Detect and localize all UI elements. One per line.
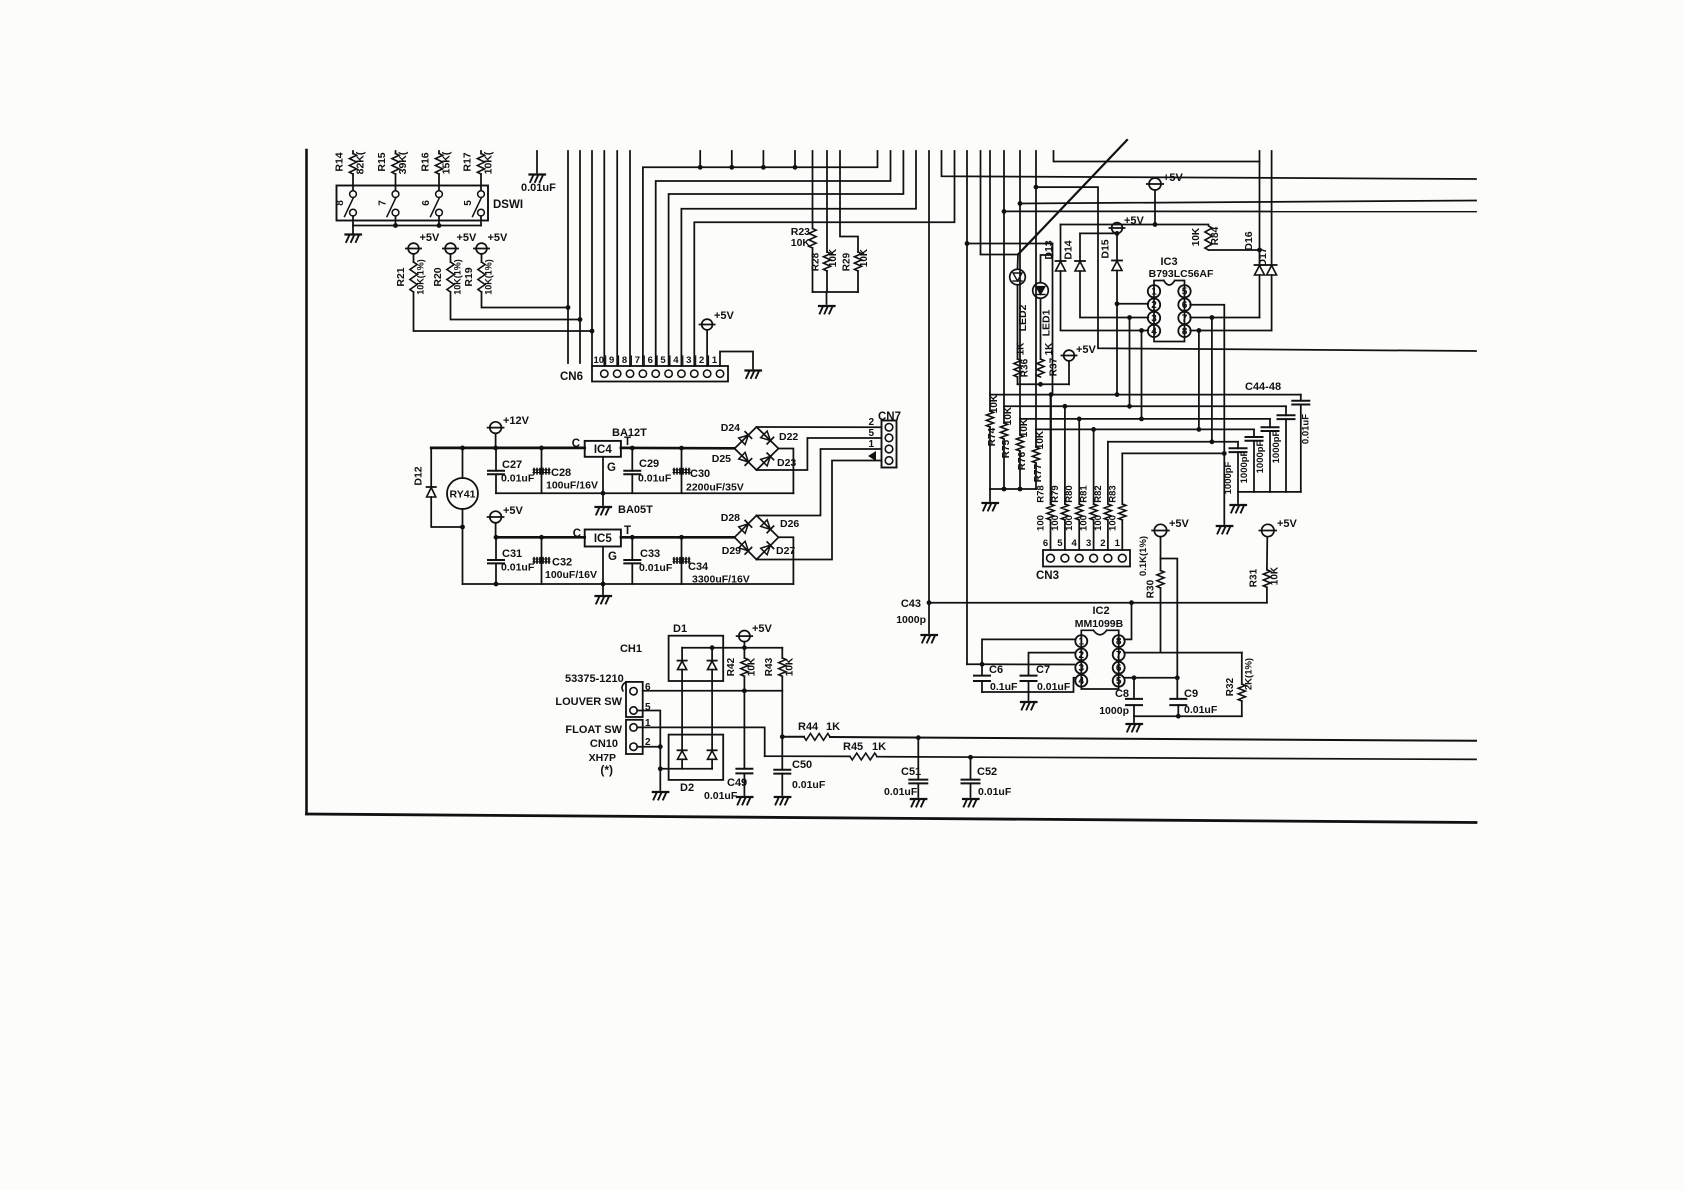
wire R30 branch to C9	[1161, 559, 1178, 699]
svg-text:10K: 10K	[1191, 227, 1202, 246]
wire top rail to D16	[1054, 151, 1260, 162]
resistor R42 10K	[743, 648, 745, 658]
diode D12	[430, 448, 432, 487]
svg-text:R77: R77	[1033, 463, 1044, 482]
wire IC5 output rail	[621, 536, 735, 539]
svg-text:C28: C28	[551, 467, 571, 479]
wire IC2 pin3 line	[982, 663, 1074, 665]
resistor R17 10K top ladder	[480, 151, 482, 154]
svg-text:C33: C33	[640, 548, 660, 560]
wire CN6 pin9	[616, 151, 618, 366]
wire CN10 pin6 line	[643, 690, 783, 692]
capacitor C28 100uF/16V	[541, 448, 543, 493]
svg-text:10K: 10K	[747, 657, 758, 676]
svg-text:B793LC56AF: B793LC56AF	[1149, 268, 1214, 280]
svg-text:100: 100	[1036, 515, 1047, 531]
svg-text:C6: C6	[989, 664, 1003, 676]
svg-text:10K(1%): 10K(1%)	[484, 259, 494, 295]
DIP switch DSWI	[337, 186, 489, 221]
capacitor C29 0.01uF	[631, 448, 633, 471]
resistor R16 15K top ladder	[438, 151, 440, 154]
capacitor C48	[1300, 395, 1302, 401]
wire loop3 R76 net	[1020, 418, 1270, 420]
wire vertical LED2 branch	[981, 151, 1019, 255]
wire D15 branch down to loop1	[1116, 304, 1118, 395]
svg-text:D26: D26	[780, 518, 799, 530]
diode bridge D28 D26 D29 D27	[735, 516, 779, 560]
svg-text:CN6: CN6	[560, 371, 583, 383]
capacitor C27 0.01uF	[495, 448, 497, 471]
resistor R79 100 series	[1064, 406, 1066, 504]
svg-text:39K(: 39K(	[397, 151, 409, 174]
LED LED2	[1017, 255, 1020, 270]
svg-text:LED2: LED2	[1017, 304, 1029, 331]
capacitor C51 0.01uF	[916, 735, 921, 740]
resistor R713 100 series	[1121, 453, 1123, 504]
svg-text:+5V: +5V	[1169, 518, 1190, 530]
diode D13	[1060, 225, 1062, 262]
connector CN3	[1043, 550, 1130, 567]
capacitor C52 0.01uF	[968, 755, 973, 760]
svg-text:C44-48: C44-48	[1245, 381, 1281, 393]
wire C43 bus to R31	[929, 602, 1267, 604]
svg-text:D13: D13	[1043, 240, 1055, 259]
svg-text:5: 5	[1116, 676, 1122, 687]
svg-text:D17: D17	[1257, 247, 1269, 266]
svg-text:0.01uF: 0.01uF	[1184, 704, 1218, 716]
DSWI common bus wire	[352, 216, 354, 226]
svg-text:15K(: 15K(	[441, 151, 453, 174]
resistor R76 10K pullup	[1019, 419, 1021, 435]
CN6 pin1 ground elbow	[720, 352, 753, 369]
svg-text:D25: D25	[712, 453, 731, 465]
capacitor C9 0.01uF	[1170, 698, 1186, 700]
border frame left edge	[305, 150, 308, 814]
svg-text:C34: C34	[688, 561, 709, 573]
svg-text:10K: 10K	[1003, 406, 1014, 425]
svg-text:R37: R37	[1049, 357, 1060, 376]
svg-text:5: 5	[1182, 287, 1188, 298]
svg-text:1K: 1K	[826, 721, 840, 733]
+5V supply for R19	[476, 243, 487, 254]
wire loop5 net	[1108, 441, 1238, 443]
capacitor stub 0.01uF with ground	[536, 151, 538, 173]
+5V supply for R21	[408, 243, 419, 254]
svg-text:R32: R32	[1225, 677, 1236, 696]
svg-text:10K: 10K	[1270, 566, 1281, 585]
svg-text:100: 100	[1093, 515, 1104, 531]
svg-text:BA05T: BA05T	[618, 504, 653, 516]
border frame bottom edge	[307, 814, 1477, 823]
svg-text:R21: R21	[395, 267, 407, 286]
svg-text:6: 6	[1043, 538, 1048, 549]
svg-text:10K: 10K	[791, 237, 811, 249]
svg-text:100: 100	[1050, 515, 1061, 531]
svg-text:1000pF: 1000pF	[1255, 440, 1266, 473]
wire elbow to bus y348	[1036, 187, 1476, 351]
wire LED1/R78 junction vertical	[1050, 395, 1052, 504]
connector CN6	[592, 366, 728, 382]
+12V source	[490, 422, 502, 434]
svg-text:CN3: CN3	[1036, 570, 1059, 582]
resistor R15 39K top ladder	[395, 151, 397, 154]
svg-text:2200uF/35V: 2200uF/35V	[686, 482, 744, 494]
svg-text:1K: 1K	[1016, 342, 1027, 356]
svg-text:C51: C51	[901, 766, 921, 778]
svg-text:C: C	[572, 438, 580, 450]
svg-text:6: 6	[421, 200, 432, 206]
diode D14	[1079, 233, 1081, 261]
svg-text:9: 9	[609, 355, 614, 366]
svg-text:DSWI: DSWI	[493, 199, 523, 211]
wire vertical R75 feed	[1003, 151, 1005, 406]
svg-text:1000pF: 1000pF	[1239, 450, 1250, 483]
svg-text:R42: R42	[726, 657, 737, 676]
wire bridge1 top to CN7 pin1	[757, 426, 882, 428]
svg-text:+5V: +5V	[1277, 518, 1298, 530]
diode D15	[1116, 233, 1118, 260]
resistor R43 10K	[781, 648, 783, 658]
wire IC2 pin5 line	[1124, 677, 1177, 679]
resistor R14 82K top ladder	[352, 151, 354, 154]
wire long vertical elbow into C6 node	[967, 663, 982, 665]
svg-text:3: 3	[1086, 538, 1091, 549]
svg-text:6: 6	[1182, 300, 1188, 311]
R23 R28 R29 common wire and ground	[813, 291, 859, 293]
resistor R84 10K	[1205, 226, 1212, 250]
svg-text:1000pF: 1000pF	[1271, 430, 1282, 463]
wire bridge2 top to CN7 pin3	[757, 449, 882, 516]
wire IC2 pin8 to C43 bus	[1124, 603, 1131, 640]
svg-text:8: 8	[1116, 637, 1122, 648]
svg-text:3: 3	[1079, 663, 1085, 674]
wire IC4 output rail	[621, 447, 735, 450]
svg-text:R84: R84	[1210, 226, 1221, 245]
resistor R21 10K(1%)	[413, 254, 415, 262]
svg-text:R81: R81	[1079, 485, 1090, 503]
capacitor C8 1000p	[1133, 678, 1135, 699]
R74-77 ground bus	[990, 488, 1036, 490]
svg-text:+5V: +5V	[714, 310, 735, 322]
wire D2 bottom bus and ground	[660, 768, 712, 770]
svg-text:D28: D28	[721, 512, 740, 524]
DSWI switch pole 8	[350, 191, 357, 198]
C44-48 ground bus	[1238, 491, 1301, 493]
capacitor C30 2200uF/35V	[681, 448, 683, 493]
svg-text:C30: C30	[690, 468, 710, 480]
wire bridge2 bottom to CN7 pin4	[757, 461, 882, 560]
svg-text:100uF/16V: 100uF/16V	[545, 569, 597, 581]
svg-text:D1: D1	[673, 623, 687, 635]
svg-text:1: 1	[1151, 287, 1157, 298]
svg-text:D29: D29	[722, 545, 741, 557]
diode bridge D24 D22 D25 D23	[735, 427, 779, 470]
svg-text:5: 5	[660, 355, 666, 366]
svg-text:2: 2	[699, 355, 704, 366]
svg-text:+5V: +5V	[488, 232, 509, 244]
svg-text:R43: R43	[764, 657, 775, 676]
wire bus y211 to right	[1004, 210, 1476, 212]
svg-text:2: 2	[868, 417, 874, 428]
wire CN6 pin5 staircase C	[669, 151, 904, 366]
svg-text:C43: C43	[901, 598, 921, 610]
resistor R45 1K rail	[765, 755, 850, 757]
capacitor C46	[1269, 419, 1271, 427]
svg-text:R28: R28	[811, 252, 822, 271]
wire D16 to IC3 pin7	[1190, 317, 1259, 319]
DSWI switch pole 7	[392, 191, 399, 198]
svg-text:R78: R78	[1036, 485, 1047, 502]
svg-text:C31: C31	[502, 548, 522, 560]
wire bridge1 bottom to CN7 pin2	[757, 438, 882, 470]
+5V at R31	[1262, 524, 1274, 536]
IC4 section bottom rail	[496, 492, 793, 494]
svg-text:1K: 1K	[872, 741, 886, 753]
diode D1a	[678, 660, 687, 662]
wire stub x568	[567, 151, 569, 363]
wire vertical R74 feed	[989, 151, 991, 395]
wire loop1 R74 net	[990, 394, 1301, 396]
svg-text:2: 2	[1100, 538, 1105, 549]
svg-text:(*): (*)	[600, 763, 613, 777]
wire stub x580	[579, 151, 581, 363]
svg-text:7: 7	[1116, 650, 1122, 661]
svg-text:2: 2	[1079, 650, 1085, 661]
wire bridge2 right vertex to bottom rail	[779, 537, 794, 584]
svg-text:R45: R45	[843, 741, 863, 753]
C8 C9 R32 ground bus	[1134, 715, 1242, 717]
+5V at D15	[1112, 223, 1123, 234]
resistor R29 10K	[840, 151, 858, 252]
svg-text:1: 1	[712, 355, 718, 366]
wire bus y205 to right	[1020, 201, 1476, 204]
svg-text:0.01uF: 0.01uF	[884, 786, 918, 798]
svg-text:LOUVER SW: LOUVER SW	[555, 696, 622, 708]
svg-text:3: 3	[686, 355, 691, 366]
capacitor C31 0.01uF	[495, 537, 497, 560]
wire IC5 input rail	[496, 536, 585, 539]
svg-text:R17: R17	[462, 152, 474, 171]
svg-text:3: 3	[1151, 313, 1157, 324]
svg-text:0.01uF: 0.01uF	[792, 779, 826, 791]
svg-text:+5V: +5V	[420, 232, 441, 244]
wire R21 to bus	[414, 292, 593, 331]
capacitor C33 0.01uF	[631, 537, 633, 560]
svg-text:R20: R20	[432, 267, 444, 286]
svg-text:C8: C8	[1115, 688, 1129, 700]
wire vertical R76 feed	[1019, 151, 1021, 419]
svg-text:1000p: 1000p	[896, 614, 926, 626]
svg-text:0.1K(1%): 0.1K(1%)	[1138, 536, 1149, 576]
svg-text:D14: D14	[1063, 240, 1075, 259]
svg-text:+5V: +5V	[1124, 215, 1145, 227]
svg-text:10K(1%): 10K(1%)	[453, 259, 463, 295]
wire CN6 pin3 staircase E	[694, 151, 954, 366]
svg-text:C52: C52	[977, 766, 997, 778]
wire CN6 pin6 staircase B	[656, 151, 891, 366]
svg-text:C27: C27	[502, 459, 522, 471]
svg-text:100: 100	[1079, 515, 1090, 531]
svg-text:R76: R76	[1017, 451, 1028, 470]
diode block D2	[669, 735, 724, 780]
svg-text:D2: D2	[680, 782, 694, 794]
wire R20 to bus	[451, 292, 581, 320]
svg-text:C7: C7	[1036, 664, 1050, 676]
svg-text:T: T	[624, 525, 631, 537]
svg-text:53375-1210: 53375-1210	[565, 673, 624, 685]
svg-text:0.01uF: 0.01uF	[521, 182, 556, 194]
wire C6 C7 bottom to IC2 pin4	[982, 678, 1075, 692]
IC4 ground pin	[602, 457, 604, 493]
svg-text:RY41: RY41	[450, 489, 476, 501]
LED LED1	[1041, 255, 1053, 283]
capacitor C49 0.01uF	[736, 768, 752, 770]
svg-text:IC2: IC2	[1092, 605, 1109, 617]
IC5 section bottom rail	[463, 583, 794, 585]
svg-text:0.01uF: 0.01uF	[704, 790, 738, 802]
resistor R77 10K pullup	[1035, 429, 1037, 447]
svg-text:D27: D27	[776, 545, 795, 557]
CN6 pin 6 circle	[652, 370, 659, 377]
svg-text:R75: R75	[1001, 439, 1012, 458]
svg-text:+5V: +5V	[503, 505, 524, 517]
svg-text:1: 1	[1079, 637, 1085, 648]
capacitor C47	[1285, 406, 1287, 415]
resistor R75 10K pullup	[1003, 406, 1005, 423]
wire vertical to IC2 pin3 net	[966, 151, 968, 664]
resistor R19 10K(1%)	[481, 254, 483, 262]
svg-text:R44: R44	[798, 721, 819, 733]
svg-text:4: 4	[673, 355, 679, 366]
wire CN10 pin5 to ground rail	[637, 711, 660, 769]
svg-text:IC5: IC5	[594, 533, 613, 545]
svg-text:4: 4	[1072, 538, 1078, 549]
diode D2b	[708, 749, 717, 751]
wire loop2 R75 net	[1004, 405, 1286, 407]
svg-text:6: 6	[648, 355, 653, 366]
svg-text:C50: C50	[792, 759, 812, 771]
wire diode column a	[681, 648, 683, 661]
diode D1b	[708, 660, 717, 662]
stub wire to staircase A	[699, 151, 701, 167]
wire D14 branch down to loop2	[1129, 318, 1131, 407]
svg-text:R74: R74	[987, 427, 998, 446]
IC5 ground pin	[602, 547, 604, 585]
resistor R20 10K(1%)	[450, 254, 452, 262]
wire LED1 junction vertical to loop1	[1052, 244, 1054, 395]
diode D16	[1255, 264, 1265, 266]
wire CN6 pin4 staircase D	[681, 151, 916, 366]
resistor R28 10K	[826, 151, 828, 252]
capacitor C34 3300uF/16V	[681, 537, 683, 584]
CN6 pin 8 circle	[626, 370, 633, 377]
CN6 pin 5 circle	[665, 370, 672, 377]
wire +5V rail to R84 and D13	[1061, 224, 1209, 226]
svg-text:5: 5	[868, 428, 874, 439]
svg-text:8: 8	[622, 355, 627, 366]
wire loop4 R77 net	[1036, 428, 1254, 430]
svg-text:100: 100	[1107, 515, 1118, 531]
svg-text:+5V: +5V	[752, 623, 773, 635]
wire bridge1 right vertex to bottom rail	[779, 449, 794, 494]
resistor R74 10K pullup	[989, 395, 991, 411]
capacitor C44	[1237, 442, 1239, 449]
svg-text:0.01uF: 0.01uF	[1301, 414, 1312, 444]
svg-text:1000p: 1000p	[1099, 705, 1129, 717]
svg-text:R29: R29	[842, 252, 853, 271]
stub wire to staircase A	[731, 151, 733, 167]
svg-text:C9: C9	[1184, 688, 1198, 700]
svg-text:LED1: LED1	[1041, 309, 1053, 336]
svg-text:D16: D16	[1243, 231, 1255, 250]
resistor R32 2K(1%)	[1241, 653, 1243, 684]
svg-text:100uF/16V: 100uF/16V	[546, 480, 598, 492]
svg-text:+5V: +5V	[1076, 344, 1097, 356]
svg-text:FLOAT SW: FLOAT SW	[565, 724, 622, 736]
DSWI switch pole 5	[478, 191, 485, 198]
wire loop6 net	[1122, 452, 1224, 454]
wire CN10 pin2	[637, 746, 660, 748]
capacitor C50 0.01uF	[774, 769, 790, 771]
resistor R37 1K	[1040, 298, 1042, 359]
svg-text:R16: R16	[420, 152, 432, 171]
CN6 pin 10 circle	[601, 370, 608, 377]
+5V at R30	[1154, 524, 1166, 536]
svg-text:R83: R83	[1107, 485, 1118, 502]
svg-text:G: G	[608, 551, 617, 563]
svg-text:10K: 10K	[859, 248, 870, 267]
svg-text:D22: D22	[779, 431, 798, 443]
wire vertical R77 feed	[1035, 151, 1037, 429]
IC U IC5 BA05T regulator	[585, 530, 621, 547]
CN6 pin 3 circle	[691, 370, 698, 377]
svg-text:7: 7	[635, 355, 640, 366]
svg-text:R80: R80	[1064, 485, 1075, 502]
svg-text:4: 4	[1079, 676, 1085, 687]
svg-text:BA12T: BA12T	[612, 427, 647, 439]
+5V supply for R20	[445, 243, 456, 254]
svg-text:R82: R82	[1093, 485, 1104, 502]
svg-text:1: 1	[1115, 538, 1121, 549]
svg-text:MM1099B: MM1099B	[1075, 618, 1124, 630]
+5V for LED resistors	[1064, 350, 1075, 361]
svg-text:10: 10	[594, 355, 605, 366]
wire stub x592	[591, 151, 593, 366]
svg-text:0.01uF: 0.01uF	[639, 562, 673, 574]
svg-text:+5V: +5V	[457, 232, 478, 244]
svg-text:R36: R36	[1020, 358, 1031, 377]
svg-text:5: 5	[1057, 538, 1063, 549]
wire D13 branch down to loop3	[1141, 331, 1143, 419]
wire diode column b	[711, 648, 713, 661]
CN6 pin 1 circle	[716, 370, 723, 377]
IC U IC4 BA12T regulator	[585, 441, 621, 457]
wire IC3 pin6 down to ground	[1190, 305, 1224, 524]
+5V source at D1	[739, 631, 750, 642]
resistor R712 100 series	[1107, 442, 1109, 504]
svg-text:C: C	[573, 528, 581, 540]
wire IC2 pin7 to R32	[1124, 652, 1242, 654]
diagonal wire	[1018, 140, 1127, 255]
wire CN6 pin8	[629, 151, 631, 366]
svg-text:7: 7	[378, 200, 389, 206]
wire CN6 pin10	[603, 151, 605, 366]
resistor R30 0.1K(1%)	[1160, 537, 1162, 571]
svg-text:10K: 10K	[1035, 430, 1046, 449]
svg-text:10K: 10K	[1019, 418, 1030, 437]
svg-text:0.01uF: 0.01uF	[978, 786, 1012, 798]
wire CN10 pin1 to R45 line	[637, 727, 765, 756]
